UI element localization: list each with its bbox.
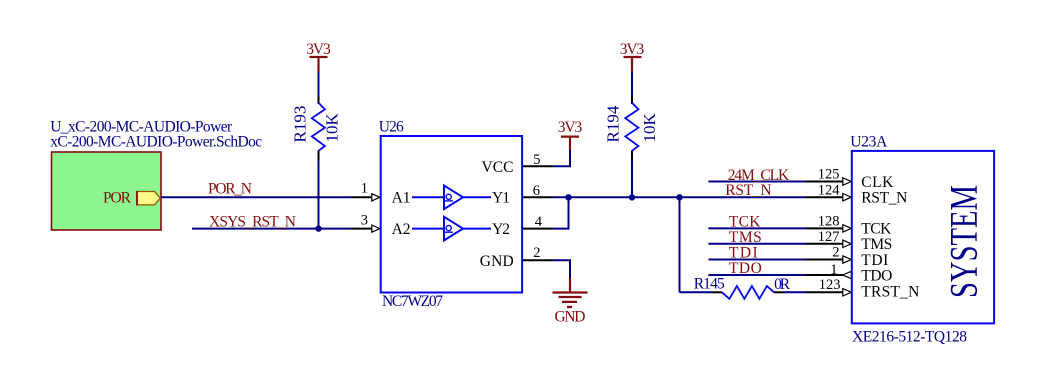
svg-text:5: 5 [533, 152, 540, 168]
svg-text:Y1: Y1 [492, 190, 510, 207]
svg-text:xC-200-MC-AUDIO-Power.SchDoc: xC-200-MC-AUDIO-Power.SchDoc [50, 134, 262, 151]
svg-text:0R: 0R [774, 276, 791, 293]
svg-text:2: 2 [533, 245, 540, 261]
svg-text:TMS: TMS [861, 236, 892, 253]
svg-text:R193: R193 [291, 106, 310, 143]
svg-text:1: 1 [361, 181, 368, 197]
svg-text:10K: 10K [640, 113, 659, 143]
svg-text:R145: R145 [694, 276, 725, 293]
svg-text:2: 2 [832, 245, 839, 261]
svg-text:GND: GND [480, 253, 514, 270]
svg-text:A1: A1 [392, 190, 411, 207]
svg-text:3V3: 3V3 [620, 41, 645, 58]
svg-text:TDI: TDI [861, 252, 888, 269]
svg-text:R194: R194 [604, 105, 623, 142]
svg-text:1: 1 [830, 262, 837, 278]
svg-text:128: 128 [818, 214, 840, 230]
svg-text:125: 125 [818, 167, 840, 183]
svg-text:TMS: TMS [729, 229, 762, 246]
svg-text:VCC: VCC [482, 159, 514, 176]
svg-text:POR: POR [103, 189, 132, 206]
svg-text:XSYS_RST_N: XSYS_RST_N [209, 213, 296, 230]
svg-text:3: 3 [361, 212, 368, 228]
svg-text:3V3: 3V3 [558, 119, 583, 136]
svg-text:SYSTEM: SYSTEM [943, 185, 986, 298]
svg-text:NC7WZ07: NC7WZ07 [382, 293, 443, 310]
svg-text:127: 127 [818, 229, 840, 245]
svg-text:124: 124 [818, 183, 841, 199]
svg-text:U26: U26 [379, 119, 404, 136]
svg-text:TDO: TDO [729, 260, 762, 277]
svg-text:POR_N: POR_N [208, 180, 252, 197]
svg-text:6: 6 [533, 183, 540, 199]
svg-text:A2: A2 [392, 221, 411, 238]
svg-text:TDO: TDO [861, 267, 892, 284]
svg-text:U23A: U23A [850, 134, 888, 151]
svg-text:4: 4 [535, 214, 543, 230]
svg-text:TDI: TDI [729, 245, 758, 262]
svg-text:123: 123 [819, 277, 841, 293]
svg-text:XE216-512-TQ128: XE216-512-TQ128 [852, 328, 967, 345]
svg-text:RST_N: RST_N [725, 182, 771, 199]
svg-text:Y2: Y2 [492, 221, 510, 238]
svg-text:TRST_N: TRST_N [861, 284, 919, 301]
svg-text:CLK: CLK [861, 174, 894, 191]
svg-text:TCK: TCK [729, 214, 761, 231]
svg-text:10K: 10K [323, 113, 342, 143]
svg-text:GND: GND [555, 309, 586, 326]
svg-text:3V3: 3V3 [306, 41, 331, 58]
svg-text:RST_N: RST_N [861, 190, 907, 207]
